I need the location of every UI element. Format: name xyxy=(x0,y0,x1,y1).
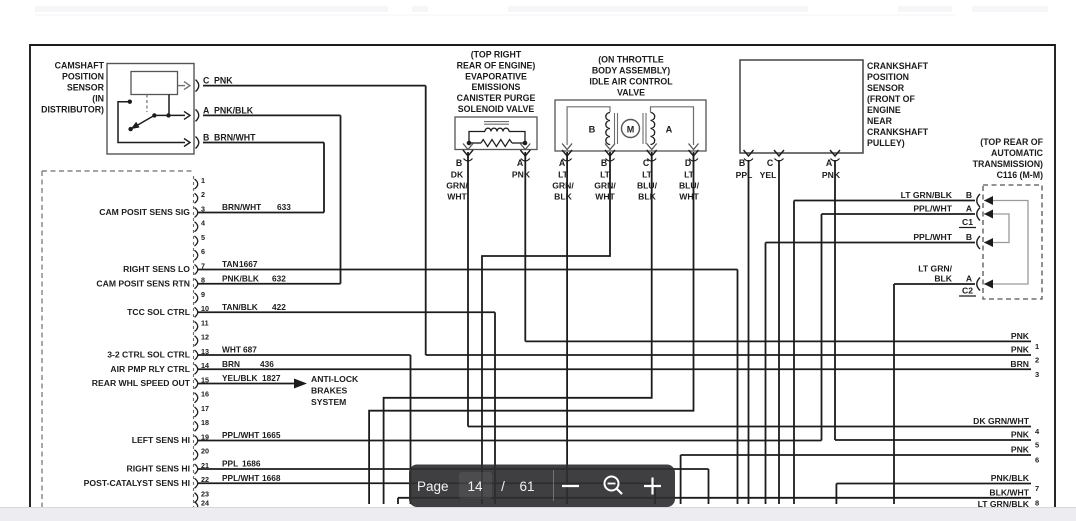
svg-text:(ON THROTTLE: (ON THROTTLE xyxy=(598,55,664,65)
svg-text:WHT: WHT xyxy=(679,192,699,202)
svg-text:B: B xyxy=(203,133,209,143)
svg-text:A: A xyxy=(966,204,972,214)
svg-text:5: 5 xyxy=(1035,441,1039,450)
svg-text:CRANKSHAFT: CRANKSHAFT xyxy=(867,127,929,137)
svg-text:ANTI-LOCK: ANTI-LOCK xyxy=(311,374,359,384)
svg-text:GRN/: GRN/ xyxy=(552,181,574,191)
svg-text:C116 (M-M): C116 (M-M) xyxy=(997,170,1044,180)
svg-text:11: 11 xyxy=(201,318,209,327)
svg-text:PPL: PPL xyxy=(222,459,238,469)
svg-text:6: 6 xyxy=(1035,456,1039,465)
svg-text:B: B xyxy=(589,125,596,135)
svg-text:AIR PMP RLY CTRL: AIR PMP RLY CTRL xyxy=(110,364,190,374)
svg-text:AUTOMATIC: AUTOMATIC xyxy=(991,148,1044,158)
svg-text:1: 1 xyxy=(201,176,205,185)
svg-text:B: B xyxy=(966,232,972,242)
svg-text:7: 7 xyxy=(1035,484,1039,493)
svg-text:687: 687 xyxy=(243,345,257,355)
svg-text:RIGHT SENS LO: RIGHT SENS LO xyxy=(123,264,190,274)
svg-text:TRANSMISSION): TRANSMISSION) xyxy=(973,159,1043,169)
svg-text:24: 24 xyxy=(201,499,209,508)
svg-text:RIGHT SENS HI: RIGHT SENS HI xyxy=(126,464,190,474)
svg-text:20: 20 xyxy=(201,447,209,456)
svg-text:SYSTEM: SYSTEM xyxy=(311,397,346,407)
svg-text:PNK: PNK xyxy=(214,76,233,86)
svg-text:PPL/WHT: PPL/WHT xyxy=(222,473,259,483)
svg-text:6: 6 xyxy=(201,247,205,256)
svg-text:CAM POSIT SENS RTN: CAM POSIT SENS RTN xyxy=(96,278,190,288)
svg-text:C: C xyxy=(203,76,210,86)
svg-text:PNK: PNK xyxy=(1011,331,1030,341)
svg-text:BRN: BRN xyxy=(1010,359,1029,369)
svg-text:VALVE: VALVE xyxy=(617,87,645,97)
svg-text:EVAPORATIVE: EVAPORATIVE xyxy=(465,71,527,81)
svg-text:NEAR: NEAR xyxy=(867,116,893,126)
svg-text:3-2 CTRL SOL CTRL: 3-2 CTRL SOL CTRL xyxy=(107,350,190,360)
svg-text:PNK/BLK: PNK/BLK xyxy=(214,105,254,115)
svg-text:1: 1 xyxy=(1035,342,1039,351)
svg-text:CAM POSIT SENS SIG: CAM POSIT SENS SIG xyxy=(99,207,190,217)
svg-text:A: A xyxy=(666,125,673,135)
svg-text:633: 633 xyxy=(277,202,291,212)
svg-text:REAR WHL SPEED OUT: REAR WHL SPEED OUT xyxy=(92,378,191,388)
svg-text:1665: 1665 xyxy=(262,430,281,440)
svg-text:ENGINE: ENGINE xyxy=(867,105,901,115)
svg-text:BRN: BRN xyxy=(222,359,240,369)
svg-text:18: 18 xyxy=(201,418,209,427)
svg-text:DK: DK xyxy=(451,170,464,180)
svg-text:POST-CATALYST SENS HI: POST-CATALYST SENS HI xyxy=(84,478,190,488)
svg-text:A: A xyxy=(203,105,210,115)
svg-text:12: 12 xyxy=(201,333,209,342)
svg-text:SENSOR: SENSOR xyxy=(867,83,905,93)
svg-text:PPL/WHT: PPL/WHT xyxy=(913,232,952,242)
svg-text:16: 16 xyxy=(201,390,209,399)
svg-text:B: B xyxy=(966,190,972,200)
svg-text:BLK/WHT: BLK/WHT xyxy=(989,487,1029,497)
svg-text:WHT: WHT xyxy=(447,192,467,202)
svg-text:3: 3 xyxy=(1035,370,1039,379)
svg-text:5: 5 xyxy=(201,233,205,242)
svg-text:LT GRN/: LT GRN/ xyxy=(918,264,952,274)
svg-text:/: / xyxy=(501,479,505,494)
svg-text:WHT: WHT xyxy=(222,345,241,355)
svg-text:17: 17 xyxy=(201,404,209,413)
svg-text:BRN/WHT: BRN/WHT xyxy=(214,133,256,143)
svg-text:WHT: WHT xyxy=(595,192,615,202)
svg-text:BODY ASSEMBLY): BODY ASSEMBLY) xyxy=(592,66,670,76)
svg-text:POSITION: POSITION xyxy=(867,72,909,82)
svg-text:TAN/BLK: TAN/BLK xyxy=(222,302,258,312)
svg-text:SENSOR: SENSOR xyxy=(67,83,105,93)
svg-text:SOLENOID VALVE: SOLENOID VALVE xyxy=(458,104,535,114)
svg-text:4: 4 xyxy=(201,219,205,228)
svg-text:PNK: PNK xyxy=(1011,345,1030,355)
svg-text:632: 632 xyxy=(272,273,286,283)
svg-text:LEFT SENS HI: LEFT SENS HI xyxy=(132,435,190,445)
svg-text:YEL/BLK: YEL/BLK xyxy=(222,373,258,383)
svg-text:BRN/WHT: BRN/WHT xyxy=(222,202,261,212)
svg-text:61: 61 xyxy=(519,479,534,494)
svg-text:DISTRIBUTOR): DISTRIBUTOR) xyxy=(41,105,104,115)
svg-text:PNK: PNK xyxy=(822,170,841,180)
svg-text:1686: 1686 xyxy=(242,459,261,469)
svg-text:BLU/: BLU/ xyxy=(637,181,658,191)
svg-text:CRANKSHAFT: CRANKSHAFT xyxy=(867,61,929,71)
svg-text:B: B xyxy=(456,158,462,168)
svg-text:14: 14 xyxy=(467,479,483,494)
svg-text:B: B xyxy=(601,158,607,168)
svg-text:C2: C2 xyxy=(962,286,973,296)
svg-text:C: C xyxy=(643,158,650,168)
svg-text:8: 8 xyxy=(1035,498,1039,507)
svg-text:436: 436 xyxy=(260,359,274,369)
svg-text:1827: 1827 xyxy=(262,373,281,383)
svg-text:CANISTER PURGE: CANISTER PURGE xyxy=(457,93,536,103)
svg-text:LT GRN/BLK: LT GRN/BLK xyxy=(901,190,953,200)
svg-text:A: A xyxy=(517,158,524,168)
svg-text:M: M xyxy=(627,125,635,135)
svg-text:(IN: (IN xyxy=(92,94,104,104)
svg-text:(TOP REAR OF: (TOP REAR OF xyxy=(980,137,1043,147)
svg-text:PNK: PNK xyxy=(1011,445,1030,455)
svg-text:EMISSIONS: EMISSIONS xyxy=(472,82,521,92)
svg-text:A: A xyxy=(559,158,566,168)
svg-text:REAR OF ENGINE): REAR OF ENGINE) xyxy=(457,60,536,70)
svg-text:LT: LT xyxy=(600,170,611,180)
svg-text:BLK: BLK xyxy=(934,274,952,284)
svg-text:PPL/WHT: PPL/WHT xyxy=(222,430,259,440)
svg-text:BLK: BLK xyxy=(554,192,572,202)
svg-text:CAMSHAFT: CAMSHAFT xyxy=(55,61,105,71)
svg-text:PNK/BLK: PNK/BLK xyxy=(222,273,259,283)
svg-text:1667: 1667 xyxy=(239,259,258,269)
svg-text:C1: C1 xyxy=(962,217,973,227)
svg-text:2: 2 xyxy=(201,190,205,199)
svg-text:(TOP RIGHT: (TOP RIGHT xyxy=(471,50,522,60)
svg-text:GRN/: GRN/ xyxy=(446,181,468,191)
svg-text:422: 422 xyxy=(272,302,286,312)
svg-text:DK GRN/WHT: DK GRN/WHT xyxy=(973,416,1030,426)
svg-text:23: 23 xyxy=(201,490,209,499)
svg-text:BRAKES: BRAKES xyxy=(311,386,348,396)
svg-text:A: A xyxy=(966,274,972,284)
svg-text:PPL: PPL xyxy=(736,170,753,180)
svg-text:A: A xyxy=(826,158,833,168)
svg-text:B: B xyxy=(739,158,745,168)
svg-text:PNK: PNK xyxy=(512,170,531,180)
svg-text:TAN: TAN xyxy=(222,259,238,269)
svg-text:2: 2 xyxy=(1035,356,1039,365)
svg-text:D: D xyxy=(685,158,691,168)
svg-text:PNK: PNK xyxy=(1011,430,1030,440)
svg-text:1668: 1668 xyxy=(262,473,281,483)
svg-text:POSITION: POSITION xyxy=(62,72,104,82)
svg-text:9: 9 xyxy=(201,290,205,299)
svg-text:PULLEY): PULLEY) xyxy=(867,138,905,148)
svg-text:Page: Page xyxy=(417,479,449,494)
svg-text:PPL/WHT: PPL/WHT xyxy=(913,204,952,214)
svg-text:TCC SOL CTRL: TCC SOL CTRL xyxy=(127,307,190,317)
svg-text:(FRONT OF: (FRONT OF xyxy=(867,94,916,104)
svg-text:IDLE AIR CONTROL: IDLE AIR CONTROL xyxy=(589,76,673,86)
svg-text:BLU/: BLU/ xyxy=(679,181,700,191)
svg-text:GRN/: GRN/ xyxy=(594,181,616,191)
svg-text:PNK/BLK: PNK/BLK xyxy=(991,473,1030,483)
svg-text:YEL: YEL xyxy=(760,170,777,180)
svg-text:C: C xyxy=(767,158,774,168)
svg-text:BLK: BLK xyxy=(638,192,656,202)
